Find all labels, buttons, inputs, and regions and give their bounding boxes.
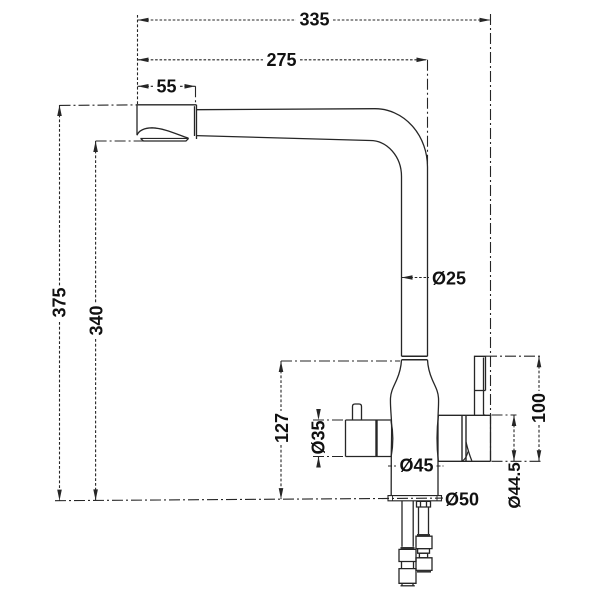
svg-text:375: 375: [50, 287, 70, 317]
hose connector block 2: [416, 558, 432, 571]
pipe outer bend: [375, 109, 428, 357]
arrow 100 bottom: [537, 450, 542, 461]
body-escutcheon intersection arc left: [391, 421, 393, 457]
arrow 275 left: [138, 58, 149, 63]
svg-text:100: 100: [529, 393, 549, 423]
dim 100 extension top: [486, 355, 542, 357]
dim 55 line: [138, 85, 196, 87]
supply hose nut: [417, 501, 431, 507]
tube left bottom cap: [401, 583, 415, 586]
tube left collar: [401, 547, 415, 549]
tube left connector block 1: [399, 549, 416, 561]
arrow 127 bottom: [279, 488, 284, 499]
hose collar: [417, 534, 430, 536]
arrow 127 top: [279, 361, 284, 372]
dim Ø45 leader: [388, 465, 444, 467]
pipe inner bend: [370, 141, 402, 357]
left handle lever: [353, 404, 362, 420]
spout head: [137, 105, 197, 139]
svg-text:55: 55: [156, 77, 176, 97]
pipe seam joint: [402, 356, 428, 360]
left handle cylinder: [346, 420, 392, 457]
svg-text:Ø25: Ø25: [432, 269, 466, 289]
dim 127 extension top: [281, 360, 400, 362]
right handle connector: [438, 415, 491, 461]
arrow Ø35 bottom (outside, pointing up): [316, 457, 321, 468]
faucet body right outline: [428, 360, 439, 495]
tube left connector neck: [402, 562, 414, 569]
dim 100 line: [538, 356, 540, 461]
svg-text:Ø35: Ø35: [309, 420, 329, 454]
hose connector block 1: [416, 536, 432, 548]
dim Ø44.5 line: [513, 415, 515, 461]
svg-text:127: 127: [272, 413, 292, 443]
mounting flange: [388, 496, 442, 501]
dim Ø35 line: [318, 410, 320, 467]
arrow 100 top: [537, 356, 542, 367]
dim 55 extension right: [195, 86, 197, 104]
dim 375 line: [59, 105, 61, 501]
arrow 55 left: [138, 84, 149, 89]
dim 335 extension left: [137, 15, 139, 104]
dim Ø35 tick bottom: [313, 456, 346, 458]
arrow Ø25 left: [402, 275, 413, 280]
arrow 55 right: [185, 84, 196, 89]
horizontal pipe bottom edge: [197, 136, 371, 141]
horizontal pipe top edge: [197, 109, 376, 110]
dim 127 line: [280, 361, 282, 499]
arrow 335 left: [138, 18, 149, 23]
arrow 340 bottom: [93, 489, 98, 500]
right handle body: [462, 415, 491, 461]
arrow Ø35 top (outside, pointing down): [316, 409, 321, 420]
svg-text:275: 275: [266, 50, 296, 70]
body-connector intersection arc right: [437, 416, 438, 462]
dim 340 extension top: [96, 140, 143, 142]
svg-text:335: 335: [299, 10, 329, 30]
aerator ring: [141, 138, 189, 141]
svg-text:340: 340: [87, 305, 107, 335]
dim 340 line: [95, 141, 97, 500]
faucet body left outline: [390, 360, 401, 495]
dim 275 extension right: [427, 60, 429, 164]
dim 275 line: [138, 59, 428, 61]
svg-text:Ø44.5: Ø44.5: [505, 462, 524, 508]
hose bottom collar: [417, 570, 431, 572]
horizontal mounting plane centerline: [55, 498, 443, 501]
arrow 335 right: [480, 18, 491, 23]
dim 375 extension top: [60, 104, 138, 107]
vertical centerline of right handle: [490, 14, 492, 461]
svg-text:Ø50: Ø50: [445, 490, 479, 510]
arrow 375 bottom: [57, 490, 62, 501]
dim 100 extension bottom: [492, 460, 542, 462]
arrow 375 top: [57, 105, 62, 116]
supply hose right: [419, 507, 429, 534]
dim Ø35 tick top: [313, 419, 346, 421]
right handle lever: [475, 356, 486, 415]
supply tube left: [402, 501, 413, 547]
svg-text:Ø45: Ø45: [399, 456, 433, 476]
arrow Ø44.5 bottom: [512, 450, 517, 461]
hose connector step rings: [418, 549, 430, 558]
arrow Ø44.5 top: [512, 415, 517, 426]
arrow 340 top: [93, 141, 98, 152]
arrow 275 right: [417, 58, 428, 63]
dim Ø25 leader: [402, 277, 430, 279]
dim Ø44.5 tick top: [492, 414, 517, 416]
dim 335 line: [138, 19, 491, 21]
tube left connector block 2: [399, 569, 416, 584]
